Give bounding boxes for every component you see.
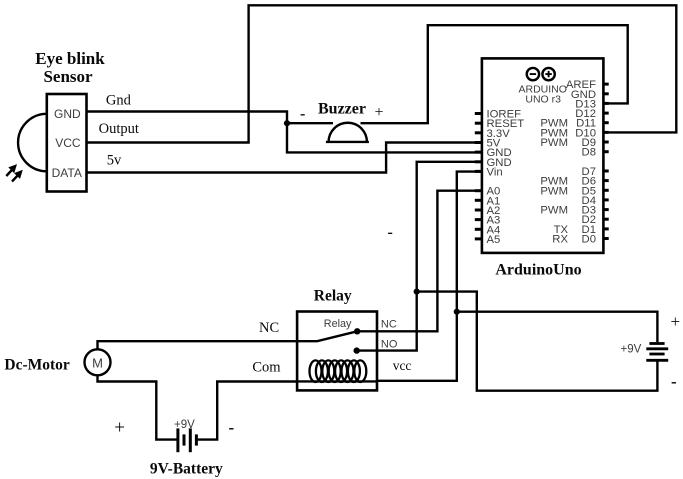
svg-text:UNO r3: UNO r3 xyxy=(525,93,561,105)
arduino right pin D0 RX xyxy=(603,237,608,240)
svg-text:ArduinoUno: ArduinoUno xyxy=(495,262,581,279)
arduino right pin D10 PWM xyxy=(603,131,608,134)
svg-text:D8: D8 xyxy=(582,147,596,159)
eye blink sensor body xyxy=(47,94,87,192)
wire arduino Vin to junction2 xyxy=(457,172,482,312)
motor M1 body xyxy=(85,349,111,375)
arduino left pin GND xyxy=(475,151,482,154)
svg-text:vcc: vcc xyxy=(393,358,412,373)
arduino right pin D4 xyxy=(603,198,608,201)
svg-text:+: + xyxy=(375,104,384,121)
arduino right pin D13 xyxy=(603,102,608,105)
svg-text:NC: NC xyxy=(259,320,279,336)
svg-text:-: - xyxy=(671,372,677,391)
wire junction1 to battery2 minus xyxy=(417,292,658,391)
arduino right pin D2 xyxy=(603,218,608,221)
wire junction2 to relay vcc xyxy=(377,312,457,381)
wire sensor Output to arduino D10 outer top loop xyxy=(87,5,677,142)
wire battery1 minus to relay com xyxy=(198,382,297,440)
wire buzzer minus lead xyxy=(287,122,333,124)
sensor light arrow 2 xyxy=(12,174,19,182)
svg-text:DATA: DATA xyxy=(52,166,82,180)
svg-text:RX: RX xyxy=(552,234,568,246)
svg-text:+: + xyxy=(671,312,681,331)
arduino left pin A5 xyxy=(475,237,482,240)
junction dot2 xyxy=(454,309,460,315)
sensor light arrow 1 xyxy=(6,168,13,176)
svg-text:Relay: Relay xyxy=(314,288,352,305)
relay K1 body xyxy=(297,312,377,391)
wire arduino GND pin2 to junction1 xyxy=(417,162,482,292)
svg-text:VCC: VCC xyxy=(55,136,81,150)
wire relay NO to junction1 xyxy=(357,292,417,351)
relay switch arm xyxy=(297,331,357,341)
svg-text:+: + xyxy=(114,418,125,439)
svg-text:PWM: PWM xyxy=(540,185,568,197)
svg-text:M: M xyxy=(92,355,103,370)
svg-text:-: - xyxy=(229,418,235,437)
wire sensor Gnd to buzzer junction xyxy=(87,112,288,124)
svg-text:Relay: Relay xyxy=(324,318,352,330)
wire motor to relay com (NC line) xyxy=(98,341,298,349)
wire junction2 to battery2 plus xyxy=(457,312,658,343)
sensor lens semicircle xyxy=(18,114,47,172)
arduino right pin D7 xyxy=(603,170,608,173)
arduino U1 body xyxy=(482,58,604,253)
battery B2 +9V plates xyxy=(649,342,664,345)
arduino left pin Vin xyxy=(475,170,482,173)
svg-text:9V-Battery: 9V-Battery xyxy=(150,461,223,478)
svg-text:Vin: Vin xyxy=(487,166,503,178)
wire junction to arduino GND pin1 xyxy=(287,123,482,152)
arduino logo xyxy=(527,68,539,80)
arduino left pin A3 xyxy=(475,218,482,221)
arduino right pin D1 TX xyxy=(603,227,608,230)
svg-text:+9V: +9V xyxy=(174,419,195,431)
arduino left pin IOREF xyxy=(475,112,482,115)
arduino left pin RESET xyxy=(475,122,482,125)
arduino right pin D5 PWM xyxy=(603,189,608,192)
relay coil L1 xyxy=(297,360,377,382)
svg-text:Buzzer: Buzzer xyxy=(318,101,366,118)
svg-text:D0: D0 xyxy=(582,234,596,246)
svg-text:Com: Com xyxy=(252,360,281,376)
svg-text:PWM: PWM xyxy=(540,205,568,217)
svg-text:NC: NC xyxy=(381,319,397,331)
arduino right pin AREF xyxy=(603,83,608,86)
relay NC contact dot xyxy=(354,328,360,334)
svg-text:GND: GND xyxy=(54,107,81,121)
arduino right pin D12 xyxy=(603,112,608,115)
arduino left pin A0 xyxy=(475,189,482,192)
junction dot1 xyxy=(414,289,420,295)
arduino right pin D8 xyxy=(603,150,608,153)
arduino right pin D9 PWM xyxy=(603,141,608,144)
arduino left pin GND2 xyxy=(475,160,482,163)
wire sensor 5v to arduino 5V xyxy=(87,143,483,173)
arduino right pin D11 PWM xyxy=(603,121,608,124)
arduino left pin A1 xyxy=(475,199,482,202)
battery B1 9V plates xyxy=(176,428,179,452)
svg-text:5v: 5v xyxy=(107,153,122,169)
relay NO contact dot xyxy=(354,347,360,353)
arduino right pin D6 PWM xyxy=(603,179,608,182)
svg-text:A5: A5 xyxy=(487,234,501,246)
svg-text:+9V: +9V xyxy=(621,344,642,356)
svg-text:-: - xyxy=(300,106,305,123)
arduino left pin 5V xyxy=(475,141,482,144)
svg-text:Gnd: Gnd xyxy=(106,93,132,109)
svg-text:PWM: PWM xyxy=(540,137,568,149)
arduino right pin D3 PWM xyxy=(603,208,608,211)
wire relay NC to arduino A0 xyxy=(357,191,482,332)
arduino right pin GND xyxy=(603,92,608,95)
junction dot buzzer minus xyxy=(284,120,290,126)
arduino left pin 3.3V xyxy=(475,131,482,134)
wire motor to battery1 plus xyxy=(98,375,177,439)
svg-text:Dc-Motor: Dc-Motor xyxy=(4,357,70,374)
svg-text:Sensor: Sensor xyxy=(43,67,93,86)
svg-text:Eye blink: Eye blink xyxy=(35,49,105,68)
svg-text:Output: Output xyxy=(99,121,139,137)
wire buzzer plus to arduino D13 inner top loop xyxy=(361,25,628,123)
svg-text:NO: NO xyxy=(381,338,398,350)
svg-text:-: - xyxy=(388,224,393,241)
arduino left pin A2 xyxy=(475,209,482,212)
buzzer BZ1 dome xyxy=(326,123,369,142)
arduino left pin A4 xyxy=(475,228,482,231)
